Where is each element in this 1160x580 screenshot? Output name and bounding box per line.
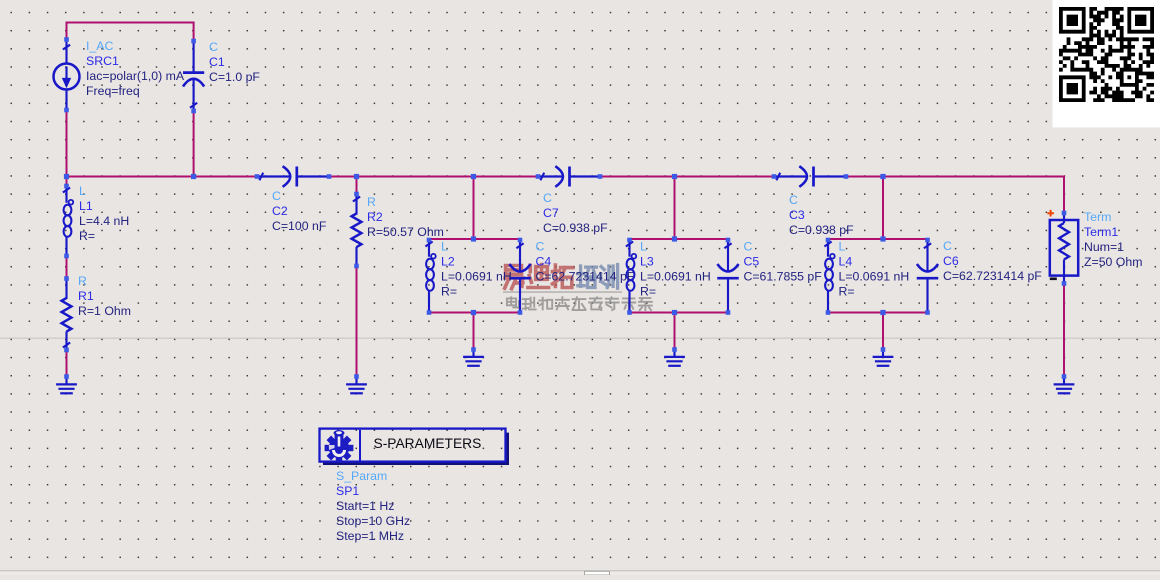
svg-text:C3: C3	[789, 208, 805, 222]
junction node C1/bus	[191, 174, 196, 179]
QR code modules	[1059, 7, 1154, 102]
svg-text:C=62.7231414 pF: C=62.7231414 pF	[536, 270, 635, 284]
svg-text:R: R	[367, 195, 376, 209]
junction node tank3 bottom	[880, 310, 885, 315]
svg-text:Term: Term	[1084, 210, 1111, 224]
svg-text:C4: C4	[536, 255, 552, 269]
junction node tank1 top	[471, 236, 476, 241]
wire tank3 bottom rail	[828, 312, 928, 314]
resistor R1	[62, 279, 72, 351]
svg-text:C5: C5	[744, 255, 760, 269]
label C1 values	[209, 40, 260, 84]
junction node tank2 bottom	[672, 310, 677, 315]
capacitor C1	[183, 43, 204, 111]
simulation block SP1 S-PARAMETERS	[320, 429, 510, 465]
capacitor C2	[257, 166, 329, 187]
svg-text:C: C	[272, 189, 281, 203]
capacitor C7	[538, 166, 600, 187]
svg-text:C: C	[744, 240, 753, 254]
svg-text:Num=1: Num=1	[1084, 240, 1124, 254]
wire tank2 top rail	[630, 238, 729, 240]
wire bus to L1	[66, 177, 68, 187]
Term1 minus polarity mark	[1050, 277, 1057, 280]
wire SRC1 bottom to node IN	[66, 110, 68, 177]
svg-text:C=100 nF: C=100 nF	[272, 219, 327, 233]
svg-text:C: C	[943, 239, 952, 253]
wire tank2 bottom rail	[630, 312, 729, 314]
svg-text:Stop=10 GHz: Stop=10 GHz	[336, 514, 410, 528]
wire tank1 bottom rail	[429, 312, 520, 314]
svg-text:C7: C7	[543, 206, 559, 220]
junction node tank1/bus	[471, 174, 476, 179]
bottom scroll handle	[585, 571, 610, 575]
svg-text:Iac=polar(1,0) mA: Iac=polar(1,0) mA	[86, 69, 185, 83]
Term1 plus polarity mark	[1047, 210, 1054, 217]
svg-text:C2: C2	[272, 204, 288, 218]
wire bus segment C7 to C3	[600, 176, 774, 178]
capacitor C5	[717, 241, 739, 313]
svg-text:I_AC: I_AC	[86, 39, 113, 53]
svg-text:L: L	[79, 184, 86, 198]
junction node tank2/bus	[672, 174, 677, 179]
junction node tank2 top	[672, 236, 677, 241]
svg-text:L1: L1	[79, 199, 93, 213]
wire Term1 to ground	[1063, 284, 1065, 378]
svg-text:Term1: Term1	[1084, 225, 1118, 239]
ground (tank1)	[463, 350, 484, 366]
watermark slogan text 射频和天线设计专家	[507, 297, 652, 310]
wire R2 to ground	[356, 266, 358, 377]
svg-text:R1: R1	[78, 289, 94, 303]
inductor L2	[425, 240, 435, 313]
svg-text:L: L	[839, 240, 846, 254]
node IN corner	[64, 174, 69, 179]
label C5 values	[744, 240, 823, 284]
svg-text:L=0.0691 nH: L=0.0691 nH	[839, 270, 910, 284]
ground (Term1)	[1054, 377, 1075, 393]
label L3 values	[640, 240, 711, 299]
watermark underline	[503, 291, 622, 293]
wire R1 to ground	[66, 350, 68, 377]
inductor L3	[626, 240, 636, 313]
svg-text:C: C	[543, 191, 552, 205]
svg-text:C: C	[536, 240, 545, 254]
svg-text:R2: R2	[367, 210, 383, 224]
svg-text:C=62.7231414 pF: C=62.7231414 pF	[943, 269, 1042, 283]
label R1 values	[78, 274, 131, 318]
page boundary line	[0, 338, 1160, 339]
svg-text:L: L	[640, 240, 647, 254]
svg-text:L3: L3	[640, 255, 654, 269]
S-PARAMETERS gear icon	[325, 430, 354, 462]
label R2 values	[367, 195, 444, 239]
svg-text:R=: R=	[839, 285, 855, 299]
svg-text:C6: C6	[943, 254, 959, 268]
wire tank1 to ground	[473, 313, 475, 350]
label L2 values	[441, 240, 512, 299]
junction node tank1 bottom	[471, 310, 476, 315]
label C2 values	[272, 189, 327, 233]
svg-text:C=0.938 pF: C=0.938 pF	[543, 221, 608, 235]
svg-text:R=1 Ohm: R=1 Ohm	[78, 304, 131, 318]
svg-text:L=0.0691 nH: L=0.0691 nH	[640, 270, 711, 284]
wire tank2 to ground	[674, 313, 676, 350]
ground (tank3)	[873, 350, 894, 366]
svg-text:L=4.4 nH: L=4.4 nH	[79, 214, 129, 228]
svg-text:Start=1 Hz: Start=1 Hz	[336, 499, 394, 513]
label SP1 values	[336, 469, 410, 543]
wire bus to tank1	[473, 177, 475, 240]
label C7 values	[543, 191, 608, 235]
svg-text:R=50.57 Ohm: R=50.57 Ohm	[367, 225, 444, 239]
resistor R2	[352, 194, 362, 266]
capacitor C3	[774, 166, 846, 187]
svg-text:R=: R=	[79, 229, 95, 243]
svg-text:L4: L4	[839, 255, 853, 269]
label C3 values	[789, 193, 854, 237]
wire bus to tank2	[674, 177, 676, 240]
wire bus segment C2 to C7	[329, 176, 538, 178]
inductor L4	[824, 240, 834, 313]
label C4 values	[536, 240, 635, 284]
wire tank1 top rail	[429, 238, 520, 240]
svg-text:L2: L2	[441, 255, 455, 269]
svg-text:C=0.938 pF: C=0.938 pF	[789, 223, 854, 237]
watermark logo text 易迪拓培训	[505, 265, 573, 289]
wire L1 to R1	[66, 256, 68, 279]
wire bus segment C3 to Term1	[846, 177, 1064, 214]
label L4 values	[839, 240, 910, 299]
svg-text:C1: C1	[209, 55, 225, 69]
wire C1 bottom to bus	[193, 112, 195, 177]
ground (R2)	[346, 377, 367, 393]
label L1 values	[79, 184, 129, 243]
inductor L1	[63, 186, 73, 256]
svg-text:Step=1 MHz: Step=1 MHz	[336, 529, 404, 543]
svg-text:C: C	[209, 40, 218, 54]
terminal Term1	[1050, 214, 1078, 284]
label C6 values	[943, 239, 1042, 283]
QR code white background	[1053, 0, 1160, 128]
wire top loop SRC1 to C1	[67, 23, 194, 42]
wire tank3 top rail	[828, 238, 928, 240]
label Term1 values	[1084, 210, 1142, 269]
svg-text:R=: R=	[640, 285, 656, 299]
junction node tank3 top	[880, 236, 885, 241]
svg-text:L=0.0691 nH: L=0.0691 nH	[441, 270, 512, 284]
ground (R1)	[56, 377, 77, 393]
svg-text:Z=50 Ohm: Z=50 Ohm	[1084, 255, 1142, 269]
svg-text:L: L	[441, 240, 448, 254]
svg-text:R=: R=	[441, 285, 457, 299]
label SRC1 values	[86, 39, 185, 98]
svg-text:S_Param: S_Param	[336, 469, 387, 483]
svg-text:C=61.7855 pF: C=61.7855 pF	[744, 270, 823, 284]
component pin squares	[64, 37, 1066, 379]
junction node R2/bus	[354, 174, 359, 179]
wire bus to tank3	[882, 177, 884, 240]
svg-text:R: R	[78, 274, 87, 288]
wire bus to R2	[356, 177, 358, 195]
svg-text:S-PARAMETERS: S-PARAMETERS	[374, 436, 482, 451]
svg-text:SP1: SP1	[336, 484, 359, 498]
ground (tank2)	[664, 350, 685, 366]
wire tank3 to ground	[882, 313, 884, 350]
current source U SRC1 (I_AC)	[54, 42, 80, 111]
junction node tank3/bus	[880, 174, 885, 179]
wire bus segment node IN to C2	[67, 176, 258, 178]
svg-text:SRC1: SRC1	[86, 54, 119, 68]
svg-text:C: C	[789, 193, 798, 207]
capacitor C4	[509, 241, 531, 313]
capacitor C6	[917, 241, 939, 313]
bottom scroll area	[0, 571, 1160, 575]
svg-text:C=1.0 pF: C=1.0 pF	[209, 70, 260, 84]
svg-text:Freq=freq: Freq=freq	[86, 84, 140, 98]
